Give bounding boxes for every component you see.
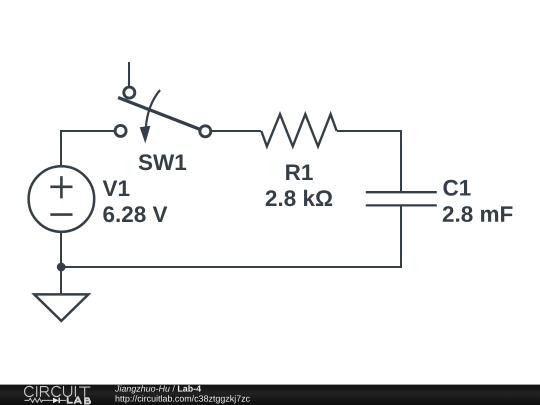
footer url line	[116, 395, 250, 403]
label 2.8 kOhm	[266, 190, 332, 207]
footer bar	[0, 385, 540, 405]
label R1	[286, 165, 313, 180]
wire capacitor bottom to node	[61, 206, 401, 268]
CircuitLab logo	[25, 386, 91, 403]
wire V1 bottom to node	[60, 233, 62, 268]
wire resistor to top-right corner down to capacitor	[337, 131, 401, 192]
footer credit text	[115, 385, 250, 403]
wire switch right terminal to resistor	[211, 130, 261, 132]
voltage source V1	[29, 166, 95, 232]
label 2.8 mF	[443, 206, 513, 222]
wire from V1 top to switch left terminal	[61, 131, 115, 166]
footer credit line	[115, 385, 201, 393]
ground	[34, 267, 88, 321]
resistor R1	[261, 114, 336, 146]
switch SW1	[115, 62, 211, 143]
label V1	[103, 181, 130, 196]
capacitor C1	[366, 192, 437, 205]
label SW1	[139, 154, 186, 170]
label 6.28 V	[103, 206, 167, 222]
label C1	[443, 180, 470, 196]
node junction	[57, 263, 66, 272]
